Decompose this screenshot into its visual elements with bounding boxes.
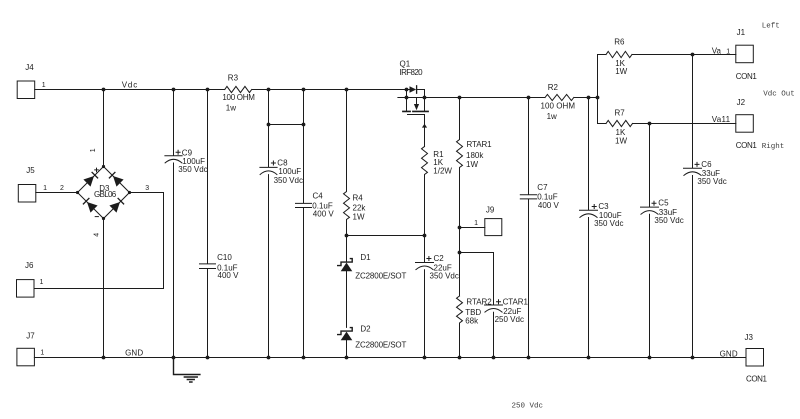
ground symbol [174, 358, 200, 383]
connector J9 [474, 205, 502, 235]
svg-text:R2: R2 [548, 83, 559, 92]
svg-text:2: 2 [60, 185, 64, 192]
svg-text:1w: 1w [547, 112, 557, 121]
wire R7 line to J2 [598, 123, 736, 125]
zener D2 [338, 324, 407, 357]
capacitor C4 [296, 90, 335, 358]
svg-text:R6: R6 [614, 38, 625, 47]
resistor R6 [606, 38, 632, 77]
svg-text:3: 3 [145, 185, 149, 192]
svg-text:J4: J4 [25, 63, 34, 72]
svg-text:J6: J6 [25, 261, 34, 270]
resistor R2 [541, 83, 576, 121]
svg-text:350 Vdc: 350 Vdc [178, 165, 207, 174]
svg-text:CTAR1: CTAR1 [503, 298, 529, 307]
connector J2 [712, 98, 758, 150]
svg-text:100 OHM: 100 OHM [222, 93, 255, 102]
svg-text:J1: J1 [737, 28, 746, 37]
svg-text:Va: Va [712, 46, 722, 55]
svg-text:400 V: 400 V [313, 210, 335, 219]
connector J6 [17, 261, 44, 297]
wire J5 to bridge pin2 [36, 192, 78, 194]
svg-text:R7: R7 [615, 109, 626, 118]
svg-text:1: 1 [726, 48, 730, 55]
svg-text:1: 1 [42, 82, 46, 89]
resistor R3 [222, 74, 255, 113]
svg-text:1W: 1W [466, 160, 478, 169]
svg-text:400 V: 400 V [218, 271, 240, 280]
svg-text:R4: R4 [353, 193, 364, 202]
svg-text:1W: 1W [615, 67, 627, 76]
wire Vdc top rail [35, 89, 407, 91]
svg-text:C5: C5 [658, 199, 669, 208]
svg-text:250 Vdc: 250 Vdc [512, 402, 544, 410]
resistor R1 [422, 147, 453, 236]
svg-text:GND: GND [720, 349, 738, 358]
svg-text:1: 1 [40, 350, 44, 357]
svg-text:Left: Left [762, 22, 780, 30]
svg-text:J3: J3 [745, 333, 754, 342]
svg-text:RTAR1: RTAR1 [467, 140, 493, 149]
svg-text:GBL06: GBL06 [94, 190, 117, 199]
connector J4 [17, 63, 46, 99]
connector J1 [712, 28, 758, 81]
svg-text:100 OHM: 100 OHM [541, 101, 576, 110]
svg-text:J9: J9 [486, 205, 495, 214]
capacitor C10 [200, 90, 240, 358]
resistor R4 [344, 90, 367, 236]
wire R6-R7 branch vertical [597, 55, 599, 124]
svg-text:180k: 180k [466, 151, 484, 160]
resistor R7 [606, 109, 633, 146]
wire R6 line to J1 [598, 54, 736, 56]
wire bridge minus to GND rail [103, 219, 105, 358]
connector J7 [17, 332, 45, 366]
svg-text:CON1: CON1 [736, 72, 758, 81]
capacitor C2 [416, 236, 459, 358]
wire J9 stub [460, 227, 485, 229]
wire GND bottom rail [34, 357, 746, 359]
wire RTAR1 to RTAR2 [459, 228, 461, 297]
svg-text:1: 1 [474, 220, 478, 227]
capacitor C9 [165, 90, 208, 358]
capacitor CTAR1 [485, 298, 529, 358]
svg-text:ZC2800E/SOT: ZC2800E/SOT [355, 271, 406, 280]
svg-text:Va11: Va11 [712, 115, 731, 124]
wire mid rail (Q1 source node) [398, 97, 598, 99]
svg-text:C7: C7 [537, 183, 548, 192]
svg-text:CON1: CON1 [746, 374, 768, 383]
svg-text:C2: C2 [434, 254, 445, 263]
svg-text:Right: Right [762, 143, 785, 151]
wire crossbar C8-C4 [269, 124, 304, 126]
svg-text:CON1: CON1 [736, 141, 758, 150]
svg-text:D1: D1 [360, 253, 371, 262]
svg-text:C6: C6 [701, 160, 712, 169]
wire bridge pin3 to J6 [34, 193, 164, 289]
svg-text:1W: 1W [353, 213, 365, 222]
zener D1 [338, 236, 407, 328]
svg-text:22k: 22k [353, 203, 367, 212]
capacitor C6 [684, 55, 727, 358]
svg-text:R3: R3 [228, 74, 239, 83]
capacitor C8 [260, 90, 303, 358]
svg-text:J5: J5 [26, 166, 35, 175]
wire branch to CTAR1 [460, 253, 494, 306]
diode bridge D3 GBL06 [60, 148, 149, 236]
svg-text:400 V: 400 V [538, 201, 560, 210]
svg-text:1: 1 [90, 148, 97, 152]
svg-text:C3: C3 [598, 202, 609, 211]
resistor RTAR2 [457, 296, 493, 358]
svg-text:250 Vdc: 250 Vdc [495, 315, 524, 324]
resistor RTAR1 [457, 98, 493, 228]
svg-text:100uF: 100uF [278, 167, 301, 176]
svg-text:GND: GND [125, 349, 143, 358]
svg-text:1w: 1w [226, 104, 236, 113]
svg-text:4: 4 [94, 233, 101, 237]
wire bridge plus to Vdc rail [103, 90, 105, 167]
svg-text:68k: 68k [465, 317, 479, 326]
svg-text:D2: D2 [360, 324, 371, 333]
svg-text:1: 1 [40, 279, 44, 286]
svg-text:350 Vdc: 350 Vdc [654, 216, 683, 225]
capacitor C3 [580, 98, 624, 358]
svg-text:ZC2800E/SOT: ZC2800E/SOT [355, 341, 406, 350]
connector J5 [18, 166, 47, 202]
svg-text:1/2W: 1/2W [433, 167, 452, 176]
svg-text:IRF820: IRF820 [400, 68, 424, 77]
svg-text:C8: C8 [277, 158, 288, 167]
svg-text:1W: 1W [615, 136, 627, 145]
transistor Q1 IRF820 [400, 60, 429, 147]
capacitor C5 [641, 124, 684, 358]
svg-text:350 Vdc: 350 Vdc [430, 271, 459, 280]
svg-text:350 Vdc: 350 Vdc [274, 176, 303, 185]
svg-text:C10: C10 [217, 253, 232, 262]
svg-text:350 Vdc: 350 Vdc [594, 219, 623, 228]
capacitor C7 [520, 98, 559, 358]
svg-text:J7: J7 [26, 332, 35, 341]
svg-text:Vdc: Vdc [122, 80, 138, 89]
svg-text:350 Vdc: 350 Vdc [697, 177, 726, 186]
svg-text:1: 1 [43, 185, 47, 192]
wire R4 to R1 link [347, 235, 425, 237]
svg-text:C4: C4 [313, 192, 324, 201]
svg-text:Vdc Out: Vdc Out [763, 90, 795, 98]
connector J3 [745, 333, 768, 383]
svg-text:J2: J2 [737, 98, 746, 107]
